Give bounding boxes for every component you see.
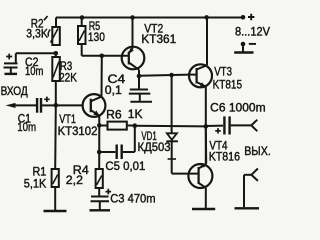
- capacitor C5: [99, 126, 135, 159]
- node VT1 collector: [100, 54, 105, 59]
- diode VD1: [166, 75, 188, 174]
- transistor VT3: [189, 64, 212, 87]
- node VT3 collector rail: [204, 15, 209, 20]
- wire VT1 emitter column: [98, 116, 100, 169]
- capacitor C6: [206, 116, 252, 134]
- wire base VT1: [56, 104, 83, 106]
- capacitor C1: [37, 98, 56, 113]
- ground under C3: [90, 209, 111, 211]
- node C5 tap: [97, 150, 102, 155]
- ground bar C4: [130, 101, 152, 103]
- wire down to R1: [54, 105, 57, 169]
- capacitor C4: [129, 76, 151, 101]
- svg-text:130: 130: [88, 31, 105, 44]
- node R6 left: [97, 123, 102, 128]
- wire top supply rail: [56, 17, 243, 19]
- VD1 cathode lead tick: [168, 158, 176, 160]
- resistor R2: [48, 18, 60, 46]
- svg-text:C5 0,01: C5 0,01: [105, 160, 145, 173]
- ground under C2: [5, 73, 18, 75]
- transistor VT1: [83, 94, 106, 117]
- transistor VT4: [188, 163, 212, 188]
- svg-text:ВХОД: ВХОД: [1, 85, 28, 98]
- resistor R1: [52, 169, 59, 211]
- wire output column: [205, 87, 207, 164]
- wire VT2 emitter to rail: [132, 18, 134, 48]
- resistor R6: [99, 122, 135, 130]
- C1 plus sign: [44, 97, 49, 102]
- svg-text:KT816: KT816: [209, 150, 240, 163]
- node R2/R3 junction: [54, 51, 59, 56]
- minus sign supply: [249, 43, 256, 45]
- svg-text:2,2: 2,2: [66, 174, 83, 187]
- svg-text:8...12V: 8...12V: [235, 25, 270, 38]
- wire feedback to output: [135, 125, 206, 128]
- node R6 right: [133, 123, 138, 128]
- input terminal arrow: [6, 103, 37, 108]
- svg-text:C3 470m: C3 470m: [110, 192, 155, 206]
- svg-text:ВЫХ.: ВЫХ.: [244, 144, 271, 158]
- ground under output terminal: [235, 207, 260, 209]
- wire VT2 collector to VT3 base: [139, 75, 189, 76]
- wire VT1 collector riser: [101, 56, 103, 97]
- resistor R5: [78, 18, 86, 56]
- svg-text:KT361: KT361: [141, 33, 176, 46]
- wire VT3 collector to rail: [206, 18, 208, 66]
- output terminal lower: [244, 169, 258, 208]
- node R5 top: [80, 15, 85, 20]
- label R2 prime tick: [44, 16, 48, 20]
- svg-text:0,1: 0,1: [105, 84, 122, 97]
- svg-text:KT815: KT815: [213, 79, 243, 92]
- svg-text:C6 1000m: C6 1000m: [210, 101, 265, 114]
- node VT1 base / C1 / R3 / R1: [54, 103, 59, 108]
- power minus terminal: [234, 42, 253, 53]
- capacitor C2: [4, 53, 18, 73]
- output terminal upper: [251, 120, 257, 132]
- svg-text:3,3K: 3,3K: [26, 27, 48, 40]
- node output: [204, 124, 209, 129]
- svg-text:КД503: КД503: [138, 140, 171, 154]
- wire VT4 emitter up: [205, 126, 207, 163]
- wire R5 to VT2 base: [82, 55, 129, 57]
- svg-text:10m: 10m: [17, 121, 36, 134]
- transistor VT2: [122, 47, 145, 70]
- svg-text:10m: 10m: [25, 65, 43, 78]
- plus sign supply: [248, 14, 254, 20]
- capacitor C3: [91, 197, 110, 210]
- svg-text:22K: 22K: [59, 72, 77, 85]
- ground under R1: [44, 210, 67, 212]
- ground under VT4: [192, 208, 215, 210]
- resistor R4: [96, 169, 103, 196]
- svg-text:KT3102: KT3102: [58, 125, 98, 138]
- node VT2 emitter rail: [130, 15, 135, 20]
- wire VT4 collector down: [205, 188, 207, 208]
- resistor R3: [52, 53, 60, 104]
- svg-text:VT3: VT3: [214, 65, 232, 78]
- svg-text:5,1K: 5,1K: [24, 177, 47, 190]
- C3 plus sign: [106, 189, 112, 195]
- svg-text:1K: 1K: [128, 108, 143, 121]
- C6 plus sign: [215, 128, 221, 133]
- node VT2 collector: [137, 74, 142, 79]
- wire VT2 collector down: [138, 70, 140, 76]
- wire to C2: [16, 52, 56, 54]
- svg-text:R6: R6: [106, 108, 122, 121]
- C2 plus sign: [6, 54, 12, 60]
- power plus terminal: [241, 15, 246, 20]
- node VD1 top: [169, 73, 174, 78]
